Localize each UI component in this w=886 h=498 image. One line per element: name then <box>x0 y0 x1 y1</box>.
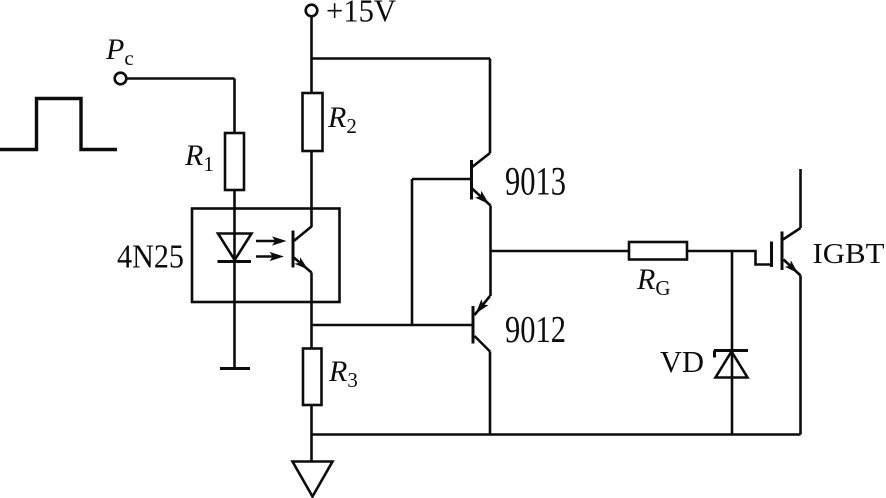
svg-text:9013: 9013 <box>505 159 566 204</box>
svg-text:9012: 9012 <box>505 309 566 351</box>
svg-text:VD: VD <box>660 344 704 379</box>
svg-text:IGBT: IGBT <box>813 239 885 270</box>
svg-text:4N25: 4N25 <box>117 239 184 276</box>
svg-text:+15V: +15V <box>326 0 396 29</box>
